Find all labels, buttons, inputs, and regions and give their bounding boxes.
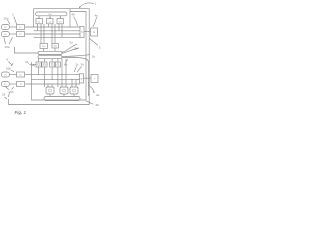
svg-text:18: 18 (2, 93, 6, 97)
svg-text:6b: 6b (64, 63, 68, 67)
svg-text:15b: 15b (9, 90, 14, 94)
svg-text:5b: 5b (75, 47, 79, 51)
svg-text:10a: 10a (4, 16, 9, 20)
svg-text:5c: 5c (92, 55, 96, 59)
svg-text:10b: 10b (6, 67, 11, 71)
svg-text:3c: 3c (76, 63, 80, 67)
svg-text:15a: 15a (5, 45, 10, 49)
svg-text:3d: 3d (81, 63, 85, 67)
svg-text:Fig. 1: Fig. 1 (15, 110, 27, 115)
svg-text:40: 40 (72, 13, 76, 17)
svg-text:2b: 2b (96, 103, 100, 107)
svg-text:5a: 5a (70, 41, 74, 45)
svg-text:4a: 4a (95, 14, 99, 18)
svg-text:31: 31 (25, 60, 29, 64)
svg-text:2a: 2a (96, 93, 100, 97)
